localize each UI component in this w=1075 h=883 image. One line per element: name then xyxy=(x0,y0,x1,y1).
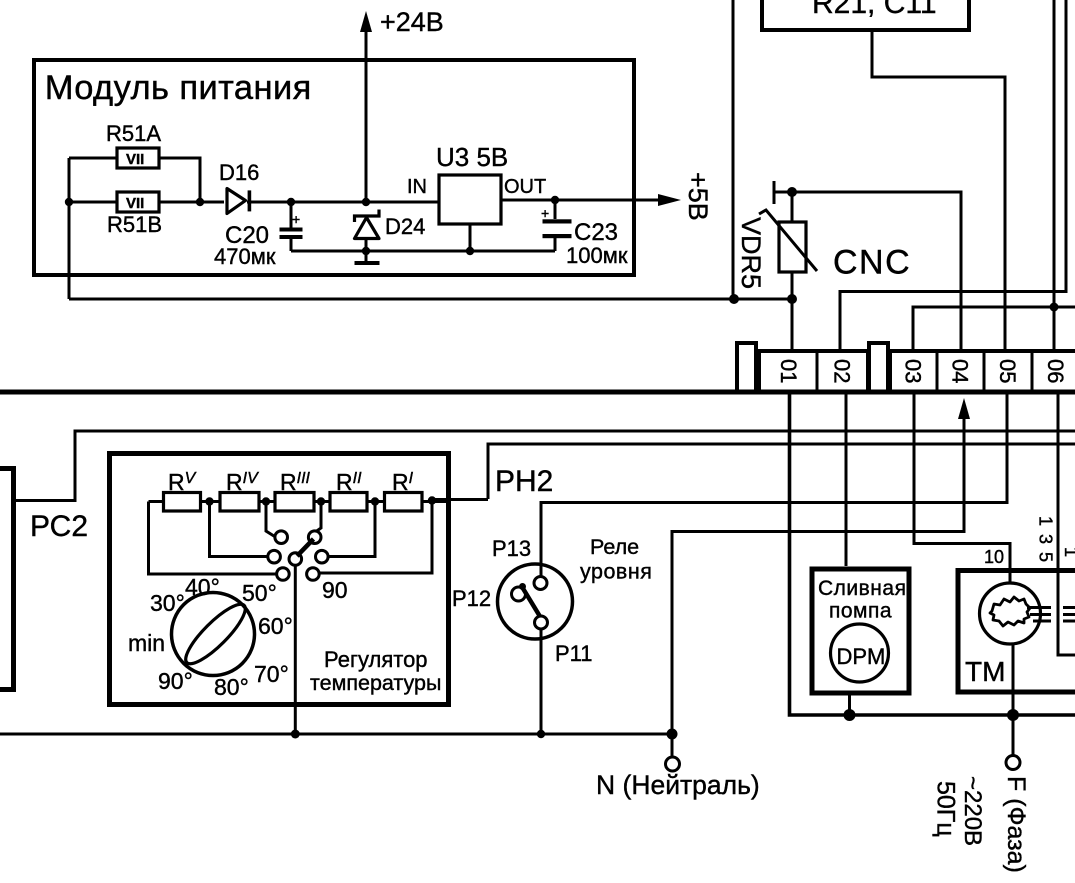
terminal block tab 1 xyxy=(737,343,756,392)
svg-text:~220В: ~220В xyxy=(959,776,986,846)
terminal cell separator 01/02 xyxy=(816,351,819,390)
svg-text:10: 10 xyxy=(984,547,1004,567)
svg-text:R51A: R51A xyxy=(106,121,161,146)
svg-text:01: 01 xyxy=(776,359,801,383)
wire from top edge to node A xyxy=(732,0,735,299)
node RIII-RII xyxy=(317,497,325,505)
node neutral terminal junction xyxy=(667,729,678,740)
svg-text:min: min xyxy=(128,630,165,656)
resistor RV xyxy=(164,493,201,512)
svg-text:Сливная: Сливная xyxy=(818,577,906,600)
svg-text:40°: 40° xyxy=(185,574,220,600)
TM stator winding marks left xyxy=(1027,608,1051,622)
node VDR5 top xyxy=(787,187,797,197)
wire RII-RI node to contact 60 xyxy=(329,502,376,557)
TM rotor blob xyxy=(990,597,1030,626)
varistor VDR5 top terminal xyxy=(774,181,792,204)
switch contact f 40deg xyxy=(277,568,290,581)
wire U3 OUT to +5V xyxy=(501,199,660,202)
wire RV-RIV node to contact 50 xyxy=(210,502,268,557)
capacitor C20 xyxy=(280,202,303,251)
svg-text:N (Нейтраль): N (Нейтраль) xyxy=(596,770,760,800)
svg-text:DPM: DPM xyxy=(837,644,886,669)
terminal block tab 2 xyxy=(869,343,888,392)
wire cell02 to drain pump xyxy=(845,392,848,566)
svg-text:1: 1 xyxy=(1061,547,1075,557)
node RII-RI xyxy=(371,497,379,505)
wire H2 heater net xyxy=(488,444,1075,499)
wire RIII-RII node to contact b xyxy=(316,502,321,532)
wire cell06 from top xyxy=(1053,0,1056,349)
wire PC2 to bus H1 xyxy=(16,431,1075,501)
svg-text:помпа: помпа xyxy=(829,600,892,623)
svg-text:+: + xyxy=(541,205,549,221)
svg-text:R51B: R51B xyxy=(107,212,162,237)
svg-text:температуры: температуры xyxy=(310,671,441,695)
wire cell03 to TM terminal 10 xyxy=(914,392,1010,583)
wire R51A right lead xyxy=(159,158,200,202)
wire TM motor to phase bus xyxy=(1012,644,1015,715)
drain pump motor DPM xyxy=(831,624,889,682)
svg-text:1 3 5: 1 3 5 xyxy=(1036,516,1056,564)
wire cell01 to phase bus corner xyxy=(788,392,791,713)
svg-text:100мк: 100мк xyxy=(566,243,628,268)
neutral terminal xyxy=(666,757,680,771)
svg-text:Реле: Реле xyxy=(590,535,639,559)
svg-text:Модуль питания: Модуль питания xyxy=(45,69,312,107)
phase terminal xyxy=(1006,756,1020,770)
wire drain pump to phase bus xyxy=(848,693,851,715)
node R51B left junction xyxy=(65,198,73,206)
terminal block group 2 outline xyxy=(890,351,1075,392)
wire H4 level relay net xyxy=(541,392,1007,577)
wire resistor chain rail xyxy=(149,500,449,503)
node VDR5 bottom xyxy=(787,294,797,304)
node A junction xyxy=(729,294,739,304)
switch contact c xyxy=(268,550,281,563)
svg-text:90°: 90° xyxy=(158,668,193,694)
TM motor circle xyxy=(980,583,1041,644)
node C20 top xyxy=(287,198,295,206)
temperature dial xyxy=(172,593,255,676)
switch contact a xyxy=(275,531,288,544)
node C23 top xyxy=(551,196,559,204)
node P11 bus xyxy=(537,730,545,738)
wire D16 to U3 IN xyxy=(247,201,438,204)
wire net A cell02 riser xyxy=(840,0,1066,349)
svg-text:D24: D24 xyxy=(385,214,425,239)
resistor R51B xyxy=(117,192,159,212)
wire U3 ground pin xyxy=(469,224,472,251)
node RI right xyxy=(428,496,436,504)
svg-text:R21, C11: R21, C11 xyxy=(812,0,937,20)
drain pump box xyxy=(812,569,909,693)
svg-text:ТМ: ТМ xyxy=(965,656,1005,687)
resistor RIV xyxy=(220,493,259,512)
terminal cell separator 04/05 xyxy=(983,351,986,390)
svg-text:+24В: +24В xyxy=(380,7,444,37)
switch contact g 90 xyxy=(307,568,320,581)
svg-text:Р12: Р12 xyxy=(452,586,491,611)
node R51A/R51B join xyxy=(196,198,204,206)
node D24 bottom xyxy=(362,247,370,255)
svg-text:РН2: РН2 xyxy=(495,465,553,498)
terminal block bottom rail xyxy=(0,390,1075,395)
resistor R51A xyxy=(117,148,159,168)
resistor RI xyxy=(385,493,423,512)
svg-text:D16: D16 xyxy=(219,160,259,185)
svg-text:CNC: CNC xyxy=(833,244,911,282)
svg-text:70°: 70° xyxy=(254,661,289,687)
node rotor to bus xyxy=(291,730,300,739)
diode D16 xyxy=(227,189,251,214)
wire P11 to neutral bus xyxy=(540,629,543,734)
switch contact e xyxy=(316,550,329,563)
arrow to terminal 04 xyxy=(958,398,970,419)
svg-text:06: 06 xyxy=(1043,359,1068,383)
node RV-RIV xyxy=(205,497,213,505)
phase bus xyxy=(790,392,1075,715)
wire RV left to contact 40 xyxy=(149,502,277,575)
svg-text:04: 04 xyxy=(948,359,973,383)
wire R^I to H2 riser xyxy=(432,498,488,501)
TM stator winding marks right xyxy=(1063,608,1075,622)
svg-text:U3 5В: U3 5В xyxy=(436,142,508,172)
+24V rail arrow xyxy=(360,11,372,202)
node drain pump bus xyxy=(844,709,856,721)
terminal cell separator 03/04 xyxy=(936,351,939,390)
wire left branch of R51A/R51B xyxy=(69,158,116,299)
switch rotor contact xyxy=(289,553,302,566)
svg-text:60°: 60° xyxy=(258,613,293,639)
IC U3 xyxy=(439,175,501,224)
svg-text:Р11: Р11 xyxy=(555,641,593,666)
temperature regulator box xyxy=(110,454,449,705)
svg-text:OUT: OUT xyxy=(504,176,546,198)
box R21 C11 xyxy=(762,0,969,30)
wire net B cell03 riser xyxy=(913,307,1075,349)
node D24 top xyxy=(362,198,370,206)
svg-text:Р13: Р13 xyxy=(492,536,531,561)
neutral terminal stub xyxy=(671,734,674,757)
svg-text:50Гц: 50Гц xyxy=(932,781,960,837)
terminal cell separator 05/06 xyxy=(1031,351,1034,390)
svg-text:+: + xyxy=(292,211,300,227)
svg-text:03: 03 xyxy=(901,359,926,383)
terminal block group 1 outline xyxy=(759,351,868,392)
node net B cell06 junction xyxy=(1050,303,1059,312)
wire R21C11 to terminal 05 xyxy=(872,30,1005,349)
wire rotor output to neutral bus xyxy=(294,565,297,734)
switch contact b xyxy=(308,531,321,544)
svg-text:05: 05 xyxy=(995,359,1020,383)
switch lever xyxy=(297,539,314,556)
level relay switch P13 xyxy=(498,564,573,639)
zener diode D24 xyxy=(355,210,380,266)
resistor RII xyxy=(330,493,367,512)
power module box xyxy=(34,60,634,275)
svg-text:VDR5: VDR5 xyxy=(736,217,766,289)
svg-text:+5В: +5В xyxy=(683,172,713,221)
svg-text:02: 02 xyxy=(830,359,855,383)
node U3 ground xyxy=(466,247,474,255)
svg-text:80°: 80° xyxy=(214,674,249,700)
wire main rail to D16 xyxy=(159,201,224,204)
wire module output bottom to VDR node xyxy=(69,298,792,301)
svg-text:уровня: уровня xyxy=(580,560,652,584)
svg-text:50°: 50° xyxy=(242,580,277,606)
wire module ground rail xyxy=(291,250,555,253)
svg-text:90: 90 xyxy=(322,577,348,603)
node TM bus xyxy=(1007,709,1019,721)
svg-text:VII: VII xyxy=(126,195,144,212)
svg-text:Регулятор: Регулятор xyxy=(324,647,428,672)
svg-text:VII: VII xyxy=(126,151,144,168)
wire VDR5 node to terminal 04 xyxy=(792,192,961,349)
left box PC2 partial xyxy=(0,469,14,690)
wire H5 neutral upper run xyxy=(672,417,964,734)
wire RI node to contact 90 xyxy=(320,501,433,574)
wire cell06 into TM box xyxy=(1058,392,1075,655)
wire VDR5 bottom to terminal 01 xyxy=(791,299,794,349)
svg-text:F (Фаза): F (Фаза) xyxy=(1002,776,1030,873)
TM motor box xyxy=(958,571,1075,693)
capacitor C23 xyxy=(541,200,572,251)
svg-text:470мк: 470мк xyxy=(214,244,276,269)
resistor RIII xyxy=(275,493,314,512)
phase terminal stub xyxy=(1012,715,1015,756)
svg-text:IN: IN xyxy=(407,176,427,198)
wire RIV-RIII node to contact a xyxy=(266,502,276,538)
node RIV-RIII xyxy=(262,497,270,505)
+5V arrow xyxy=(658,194,681,206)
svg-text:С23: С23 xyxy=(574,219,618,246)
neutral bus xyxy=(0,733,672,736)
varistor VDR5 xyxy=(759,192,817,299)
svg-text:РС2: РС2 xyxy=(30,510,88,543)
